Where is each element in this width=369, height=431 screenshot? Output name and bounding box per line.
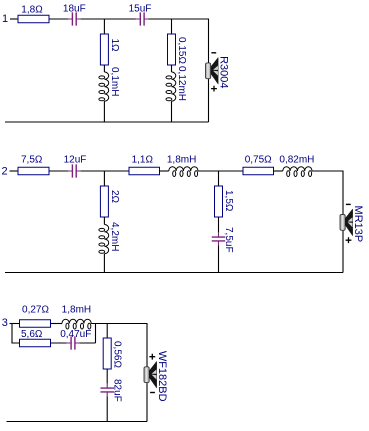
wire 4,2mH to bottom rail 2 bbox=[103, 254, 105, 273]
wire C18uF to C15uF through node A bbox=[81, 18, 136, 20]
svg-text:5,6Ω: 5,6Ω bbox=[21, 329, 43, 340]
svg-text:15uF: 15uF bbox=[129, 3, 152, 14]
wire C7,5uF to bottom rail 2 bbox=[218, 245, 220, 272]
resistor 0,56ohm shunt bbox=[103, 338, 111, 369]
wire input 3 to R 0,27ohm bbox=[10, 323, 20, 325]
speaker R3004 terminal + (bottom) bbox=[211, 86, 217, 92]
speaker WF182BD terminal + (top) bbox=[149, 354, 155, 360]
svg-text:1,8mH: 1,8mH bbox=[167, 155, 196, 166]
resistor 0,27ohm series top branch bbox=[20, 320, 51, 328]
svg-text:7,5Ω: 7,5Ω bbox=[21, 155, 43, 166]
speaker WF182BD magnet bbox=[144, 367, 149, 383]
wire L1,8mH to R0,75 through node D bbox=[198, 170, 243, 172]
svg-text:1,8Ω: 1,8Ω bbox=[21, 4, 43, 15]
wire node C down to shunt 2ohm bbox=[103, 171, 105, 186]
svg-text:R3004: R3004 bbox=[217, 56, 229, 88]
svg-text:4,2mH: 4,2mH bbox=[109, 222, 120, 251]
wire R0,27 to L1,8mH bbox=[51, 323, 63, 325]
resistor 2ohm shunt bbox=[100, 186, 108, 217]
svg-text:MR13P: MR13P bbox=[352, 206, 364, 243]
resistor 1,8ohm series bbox=[18, 15, 49, 23]
svg-text:2Ω: 2Ω bbox=[109, 190, 120, 204]
svg-text:7,5uF: 7,5uF bbox=[223, 227, 234, 253]
wire C15uF to top-right corner, down to speaker R3004 bbox=[149, 19, 209, 122]
wire R1,1 to L1,8mH bbox=[160, 170, 169, 172]
svg-text:0,12mH: 0,12mH bbox=[176, 66, 187, 101]
speaker WF182BD terminal - (bottom) bbox=[150, 392, 155, 394]
resistor 1,1ohm series bbox=[129, 167, 160, 175]
inductor 4,2mH shunt bbox=[104, 225, 108, 254]
wire R1.8 to C18uF bbox=[49, 18, 68, 20]
resistor 1,5ohm shunt bbox=[215, 186, 223, 217]
wire L1,8mH to speaker corner through node E bbox=[91, 324, 147, 422]
wire input 1 to R 1.8ohm bbox=[10, 18, 18, 20]
svg-text:0,1mH: 0,1mH bbox=[109, 67, 120, 96]
wire bottom rail 1 bbox=[5, 121, 209, 123]
speaker MR13P cone bbox=[345, 209, 353, 236]
wire C0,47uF to riser bbox=[79, 342, 95, 344]
wire 2ohm to 4,2mH bbox=[103, 217, 105, 225]
wire input 2 to R 7.5ohm bbox=[10, 170, 19, 172]
svg-text:0,27Ω: 0,27Ω bbox=[22, 305, 49, 316]
wire R7.5 to C12uF bbox=[49, 170, 68, 172]
svg-text:1,5Ω: 1,5Ω bbox=[223, 190, 234, 212]
svg-text:1,8mH: 1,8mH bbox=[62, 305, 91, 316]
speaker R3004 terminal - (top) bbox=[211, 52, 216, 54]
speaker WF182BD cone bbox=[149, 361, 157, 388]
wire 1,5ohm to C7,5uF bbox=[218, 217, 220, 233]
wire bottom rail 3 bbox=[7, 421, 148, 423]
svg-text:1,1Ω: 1,1Ω bbox=[132, 155, 154, 166]
svg-text:0,75Ω: 0,75Ω bbox=[245, 155, 272, 166]
wire L0,82mH to right corner, down to speaker MR13P bbox=[312, 171, 343, 273]
capacitor 18uF series bbox=[68, 12, 81, 25]
wire node B down to shunt 0,15ohm bbox=[171, 19, 173, 34]
wire C82uF to bottom rail 3 bbox=[106, 396, 108, 421]
svg-text:2: 2 bbox=[2, 166, 8, 178]
speaker R3004 magnet bbox=[206, 63, 211, 79]
svg-text:12uF: 12uF bbox=[64, 155, 87, 166]
capacitor 7,5uF shunt bbox=[212, 233, 226, 246]
svg-text:82uF: 82uF bbox=[112, 379, 123, 402]
svg-text:3: 3 bbox=[2, 317, 8, 329]
inductor 0,1mH shunt bbox=[104, 72, 108, 101]
speaker MR13P terminal - (top) bbox=[346, 203, 351, 205]
inductor 1,8mH series top branch bbox=[62, 319, 91, 323]
wire 0,1mH to bottom rail 1 bbox=[103, 101, 105, 122]
svg-text:1: 1 bbox=[2, 13, 8, 25]
svg-text:0,47uF: 0,47uF bbox=[60, 329, 91, 340]
svg-text:0,15Ω: 0,15Ω bbox=[176, 37, 187, 64]
svg-text:18uF: 18uF bbox=[63, 3, 86, 14]
inductor 0,82mH series bbox=[283, 167, 312, 171]
capacitor 12uF series bbox=[68, 164, 81, 177]
inductor 0,12mH shunt bbox=[172, 72, 176, 101]
resistor 1ohm shunt bbox=[100, 34, 108, 65]
resistor 7,5ohm series bbox=[18, 167, 49, 175]
svg-text:WF182BD: WF182BD bbox=[156, 351, 168, 402]
wire node A down to shunt 1ohm bbox=[103, 19, 105, 34]
wire input stub down to lower branch bbox=[12, 324, 20, 344]
resistor 5,6ohm lower branch bbox=[20, 339, 51, 347]
wire node E down to shunt 0,56ohm bbox=[106, 324, 108, 339]
capacitor 0,47uF lower branch bbox=[67, 336, 80, 349]
wire node D down to shunt 1,5ohm bbox=[218, 171, 220, 186]
speaker MR13P magnet bbox=[340, 215, 345, 231]
capacitor 15uF series bbox=[136, 12, 149, 25]
resistor 0,15ohm shunt bbox=[168, 34, 176, 65]
wire 0,56ohm to C82uF bbox=[106, 369, 108, 384]
wire bottom rail 2 bbox=[5, 272, 343, 274]
resistor 0,75ohm series bbox=[243, 167, 274, 175]
wire C12uF to R1,1 through node C bbox=[81, 170, 129, 172]
svg-text:0,56Ω: 0,56Ω bbox=[112, 341, 123, 368]
capacitor 82uF shunt bbox=[100, 384, 114, 397]
wire 0,12mH to bottom rail 1 bbox=[171, 101, 173, 122]
svg-text:0,82mH: 0,82mH bbox=[279, 155, 314, 166]
wire 0,15ohm to 0,12mH bbox=[171, 65, 173, 72]
wire R0,75 to L0,82mH bbox=[274, 170, 283, 172]
svg-text:1Ω: 1Ω bbox=[109, 39, 120, 53]
speaker MR13P terminal + (bottom) bbox=[346, 237, 352, 243]
speaker R3004 cone bbox=[211, 57, 219, 84]
wire riser lower branch up to main line bbox=[95, 324, 97, 344]
wire 1ohm to 0,1mH bbox=[103, 65, 105, 72]
inductor 1,8mH series bbox=[169, 167, 198, 171]
wire R5,6 to C0,47uF bbox=[51, 342, 67, 344]
